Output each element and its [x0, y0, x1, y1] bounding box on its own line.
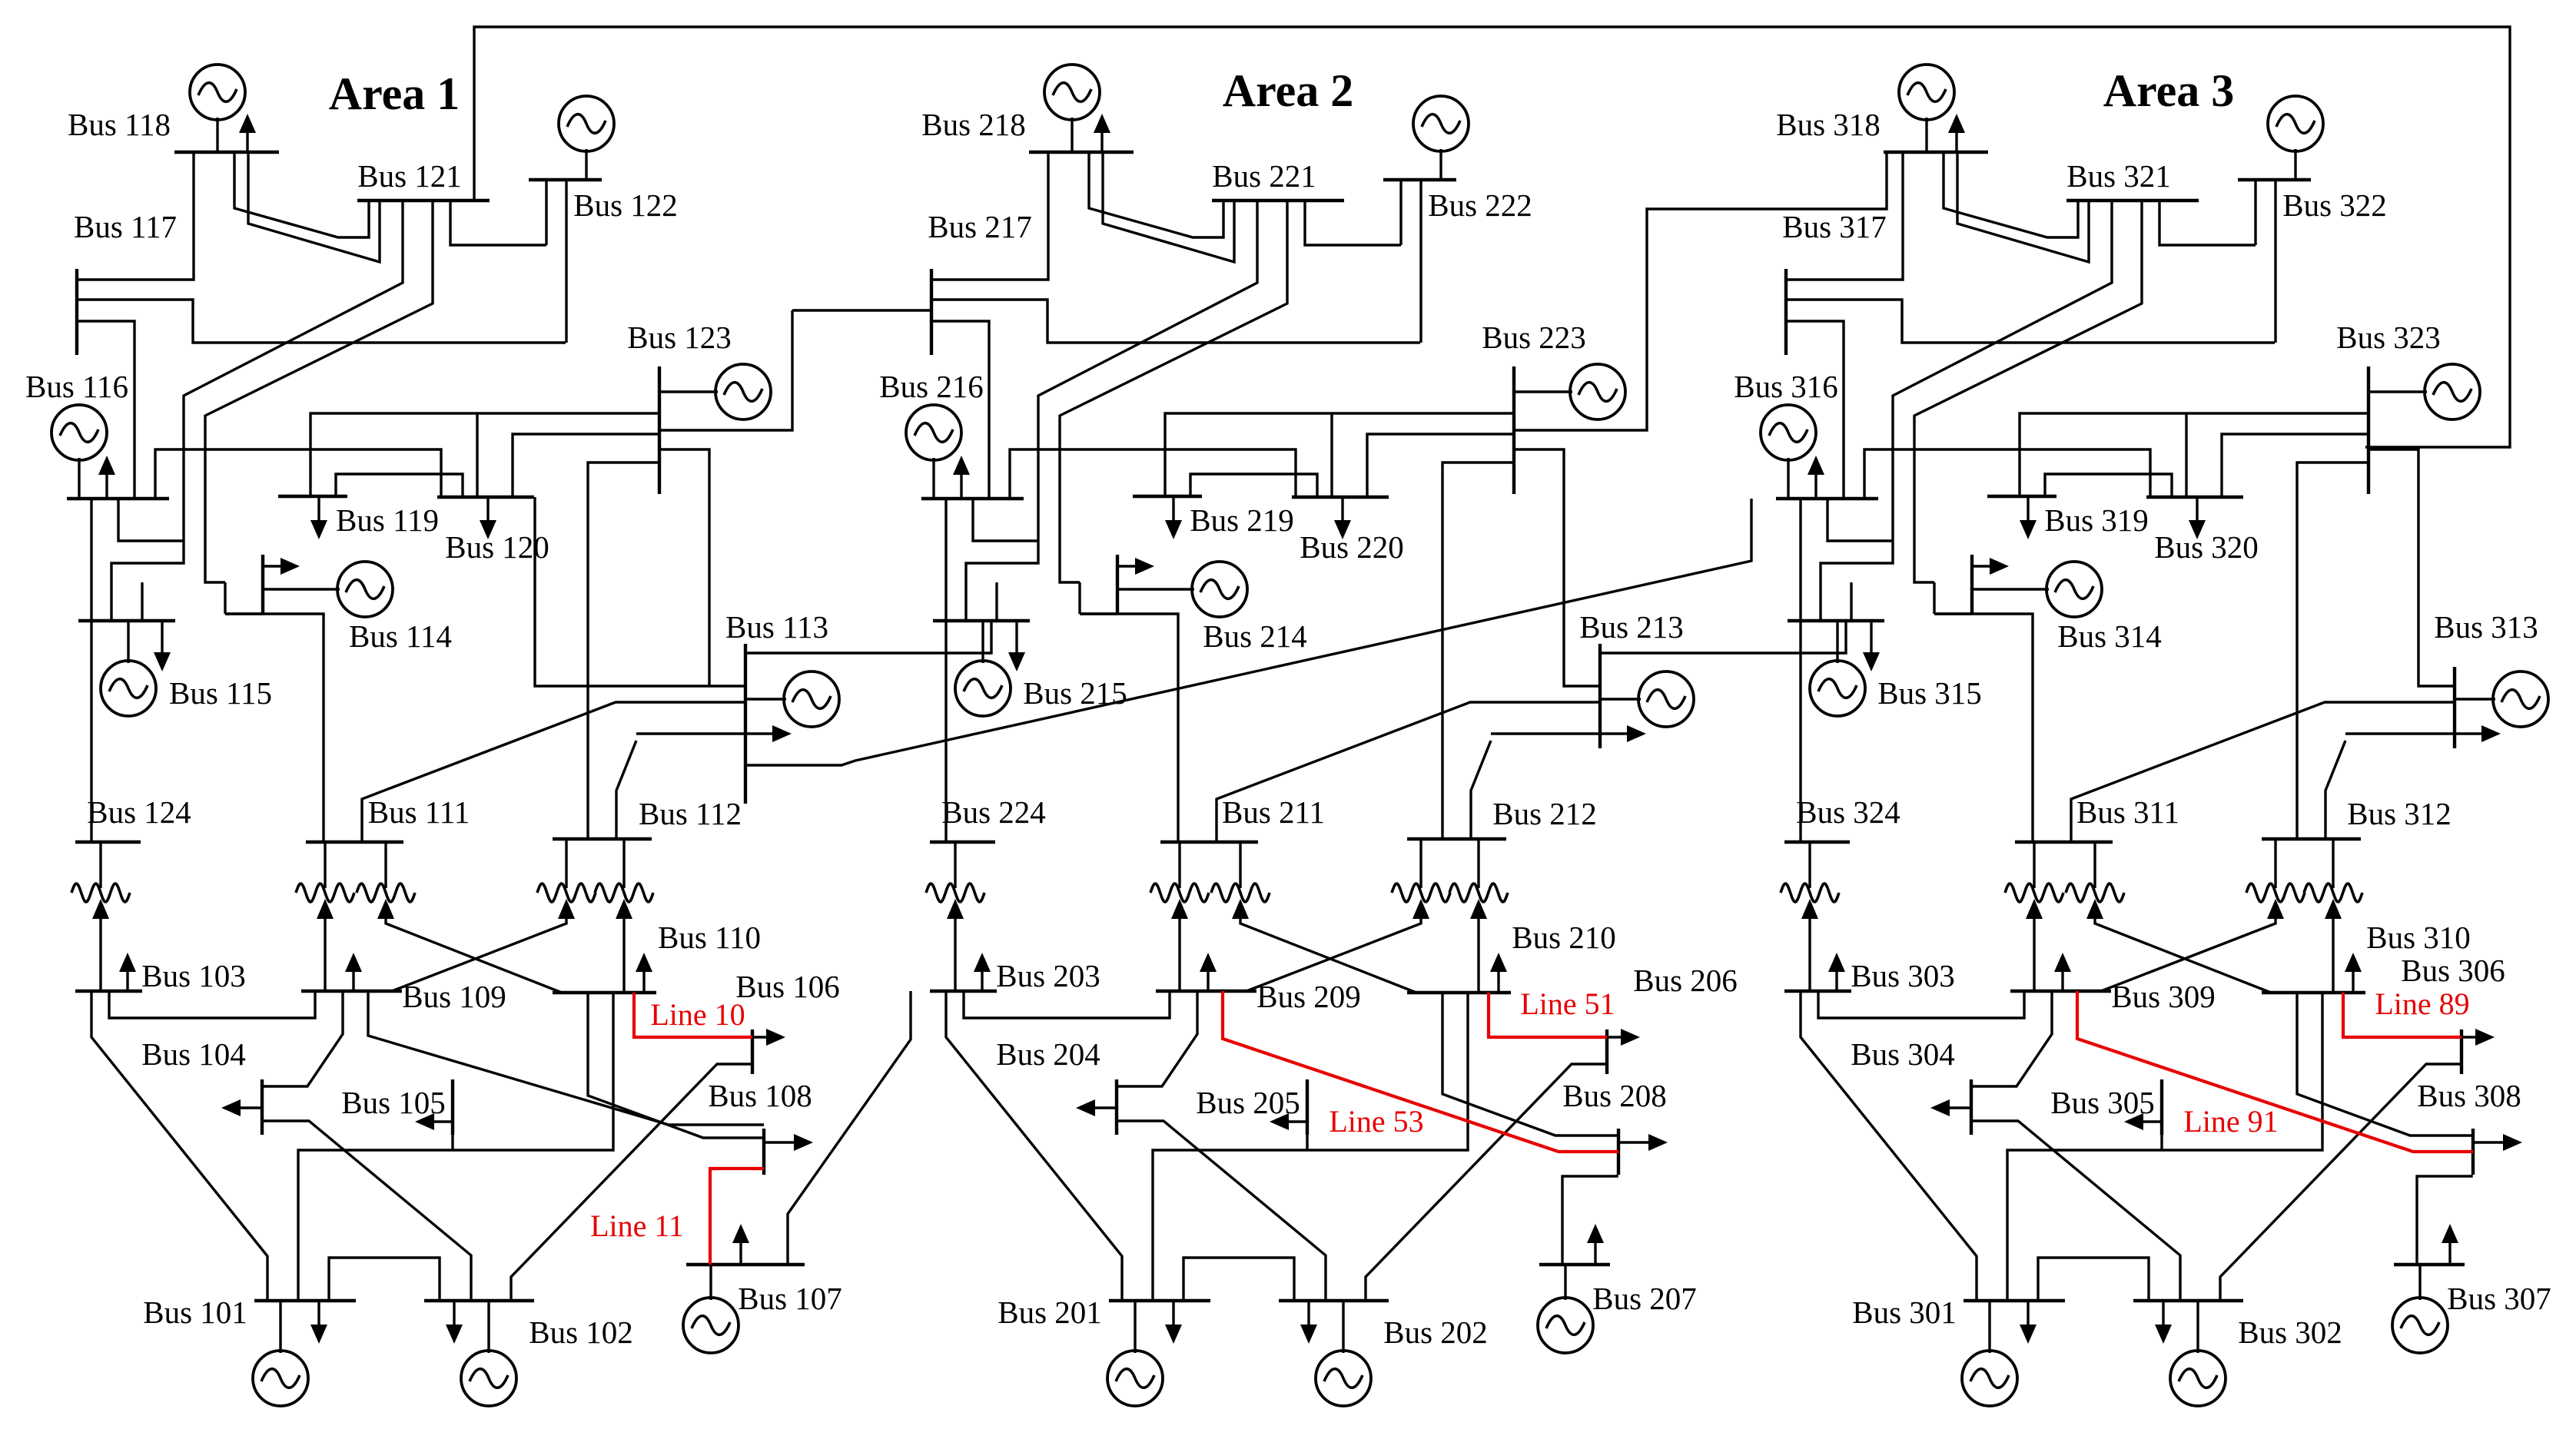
- svg-text:Bus 110: Bus 110: [658, 920, 761, 955]
- load arrow at bus 301: [2020, 1301, 2037, 1344]
- load arrow at bus 114: [263, 558, 300, 575]
- bus 209 bar: [1156, 990, 1256, 993]
- wire 204-202: [1117, 1121, 1326, 1301]
- wire tie line bus 107 to bus 203: [788, 991, 911, 1265]
- wire 301-302 bridge: [2038, 1258, 2149, 1301]
- bus 313 bar: [2453, 667, 2456, 748]
- generator at bus 114: [263, 562, 393, 617]
- bus 101 bar: [254, 1299, 356, 1302]
- wire 210-208: [1442, 993, 1618, 1136]
- wire 121-115 circuit 1: [111, 201, 403, 621]
- svg-text:Bus 304: Bus 304: [1851, 1036, 1955, 1072]
- wire 117-122: [77, 300, 566, 343]
- red line Line 51 (210-206): [1489, 993, 1607, 1037]
- load arrow at bus 206: [1607, 1029, 1640, 1046]
- load arrow at bus 215: [1008, 621, 1025, 671]
- wire 204-209: [1117, 991, 1197, 1086]
- svg-text:Bus 105: Bus 105: [341, 1085, 446, 1120]
- bus 106 bar: [751, 1029, 754, 1074]
- svg-text:Bus 324: Bus 324: [1796, 794, 1900, 830]
- load arrow at bus 201: [1165, 1301, 1182, 1344]
- svg-text:Bus 321: Bus 321: [2066, 158, 2171, 194]
- load arrow at bus 205: [1270, 1113, 1307, 1130]
- wire 321-315 circuit 2: [1914, 201, 2142, 582]
- svg-text:Bus 206: Bus 206: [1633, 963, 1738, 998]
- generator at bus 123: [659, 364, 771, 419]
- bus 202 bar: [1279, 1299, 1389, 1302]
- generator at bus 201: [1107, 1301, 1163, 1406]
- bus 124 bar: [75, 840, 141, 844]
- svg-text:Line 10: Line 10: [650, 997, 745, 1032]
- transformer 212-210: [1449, 839, 1508, 993]
- svg-text:Bus 216: Bus 216: [879, 369, 984, 404]
- bus 214 bar: [1116, 555, 1119, 614]
- load arrow at bus 310: [2345, 953, 2362, 993]
- svg-text:Bus 317: Bus 317: [1782, 209, 1887, 244]
- svg-text:Bus 119: Bus 119: [336, 502, 439, 538]
- bus 218 bar: [1029, 151, 1134, 154]
- svg-text:Bus 320: Bus 320: [2154, 529, 2259, 565]
- wire 304-309: [1971, 991, 2052, 1086]
- load arrow at bus 218: [1094, 114, 1110, 152]
- load arrow at bus 109: [345, 953, 362, 991]
- wire 123 tie column: [659, 310, 792, 430]
- transformer 111-110: [357, 842, 562, 993]
- bus 308 bar: [2471, 1129, 2475, 1175]
- bus 111 bar: [306, 840, 403, 844]
- generator at bus 301: [1962, 1301, 2017, 1406]
- svg-text:Bus 211: Bus 211: [1222, 794, 1325, 830]
- load arrow at bus 213: [1491, 725, 1646, 742]
- wire 212-213: [1471, 741, 1491, 839]
- svg-text:Bus 103: Bus 103: [141, 958, 246, 993]
- wire 303-309 under: [1818, 991, 2024, 1018]
- bus 323 bar: [2367, 366, 2370, 494]
- bus 112 bar: [553, 837, 652, 840]
- generator at bus 302: [2170, 1301, 2226, 1406]
- wire 221-215 circuit 2: [1060, 201, 1287, 582]
- svg-text:Bus 212: Bus 212: [1492, 796, 1597, 831]
- wire 303-301: [1801, 991, 1977, 1301]
- svg-text:Bus 314: Bus 314: [2057, 618, 2162, 654]
- bus 211 bar: [1160, 840, 1258, 844]
- bus 105 bar: [451, 1079, 454, 1135]
- svg-text:Bus 311: Bus 311: [2076, 794, 2179, 830]
- svg-text:Bus 122: Bus 122: [573, 187, 678, 223]
- wire 216 step: [973, 499, 1039, 541]
- load arrow at bus 115: [154, 621, 171, 671]
- wire 315 riser: [1850, 582, 1852, 621]
- generator at bus 115: [101, 621, 156, 716]
- svg-text:Bus 102: Bus 102: [529, 1315, 633, 1350]
- load arrow at bus 108: [764, 1134, 813, 1151]
- load arrow at bus 106: [752, 1029, 785, 1046]
- wire 111-113: [362, 702, 745, 842]
- bus 115 bar: [78, 619, 175, 622]
- bus 207 bar: [1539, 1263, 1610, 1266]
- svg-text:Bus 307: Bus 307: [2447, 1281, 2551, 1316]
- load arrow at bus 209: [1200, 953, 1217, 991]
- wire 119-123: [310, 413, 659, 496]
- wire 105 stub: [451, 1135, 453, 1150]
- load arrow at bus 315: [1863, 621, 1880, 671]
- bus 322 bar: [2238, 178, 2311, 181]
- svg-text:Bus 310: Bus 310: [2366, 920, 2471, 955]
- wire 102-106: [511, 1064, 752, 1301]
- load arrow at bus 303: [1828, 953, 1845, 991]
- wire 305 stub: [2160, 1135, 2163, 1150]
- wire 121-115 circuit 2: [205, 201, 433, 582]
- svg-text:Bus 221: Bus 221: [1212, 158, 1316, 194]
- svg-text:Bus 201: Bus 201: [998, 1295, 1102, 1330]
- wire 318-321 circuit 2: [1957, 152, 2089, 262]
- svg-text:Bus 218: Bus 218: [921, 107, 1026, 142]
- svg-text:Bus 220: Bus 220: [1300, 529, 1404, 565]
- svg-text:Area 2: Area 2: [1223, 65, 1354, 116]
- transformer 211-209: [1150, 842, 1209, 991]
- load arrow at bus 216: [953, 456, 970, 499]
- wire 202-206: [1366, 1064, 1607, 1301]
- bus 215 bar: [933, 619, 1030, 622]
- generator at bus 116: [51, 405, 107, 499]
- wire 317-322: [1786, 300, 2275, 343]
- wire 311-313: [2071, 702, 2455, 842]
- svg-text:Bus 121: Bus 121: [357, 158, 462, 194]
- wire 112-113: [616, 741, 636, 839]
- load arrow at bus 319: [2020, 496, 2037, 539]
- svg-text:Bus 208: Bus 208: [1562, 1078, 1667, 1113]
- load arrow at bus 314: [1972, 558, 2009, 575]
- wire 215 riser: [995, 582, 998, 621]
- wire 310-308: [2297, 993, 2473, 1136]
- wire 121-122: [450, 201, 546, 245]
- generator at bus 314: [1972, 562, 2102, 617]
- wire 103-109 under: [109, 991, 315, 1018]
- svg-text:Bus 323: Bus 323: [2336, 320, 2441, 355]
- wire 322 right leg: [2274, 180, 2276, 343]
- wire 122 left leg: [545, 180, 547, 245]
- load arrow at bus 208: [1618, 1134, 1668, 1151]
- wire 120 stub up: [476, 413, 478, 497]
- wire 105-101-110 long: [298, 993, 613, 1301]
- wire 117-116: [77, 321, 134, 499]
- wire tie line bus 113 to bus 316 (long diagonal): [745, 499, 1751, 765]
- svg-text:Bus 203: Bus 203: [996, 958, 1100, 993]
- svg-text:Bus 116: Bus 116: [25, 369, 128, 404]
- wire 115-124: [90, 621, 92, 842]
- load arrow at bus 207: [1587, 1224, 1604, 1265]
- load arrow at bus 320: [2189, 497, 2206, 539]
- wire 317-316: [1786, 321, 1844, 499]
- transformer 312-310: [2304, 839, 2362, 993]
- svg-text:Bus 316: Bus 316: [1734, 369, 1838, 404]
- bus 109 bar: [301, 990, 402, 993]
- load arrow at bus 302: [2155, 1301, 2172, 1344]
- bus 316 bar: [1776, 497, 1878, 500]
- bus 123 bar: [658, 366, 661, 494]
- generator at bus 218: [1044, 65, 1100, 152]
- svg-text:Bus 222: Bus 222: [1428, 187, 1532, 223]
- generator at bus 107: [683, 1265, 739, 1353]
- svg-text:Bus 312: Bus 312: [2347, 796, 2452, 831]
- wire 207-208: [1562, 1175, 1617, 1265]
- bus 204 bar: [1115, 1079, 1118, 1135]
- transformer 211-210: [1211, 842, 1416, 993]
- wire 211-213: [1217, 702, 1600, 842]
- bus 320 bar: [2146, 496, 2243, 499]
- load arrow at bus 316: [1808, 456, 1824, 499]
- generator at bus 113: [745, 671, 839, 727]
- wire tie line bus 121 to bus 323 (top long line): [474, 27, 2510, 447]
- load arrow at bus 120: [480, 497, 496, 539]
- load arrow at bus 118: [239, 114, 256, 152]
- load arrow at bus 305: [2124, 1113, 2162, 1130]
- wire 116 step: [118, 499, 184, 541]
- svg-text:Bus 113: Bus 113: [725, 609, 828, 645]
- wire 218-217: [931, 152, 1048, 280]
- transformer 312-309: [2101, 839, 2305, 991]
- wire 320-323: [2222, 434, 2369, 497]
- wire 214-211: [1080, 612, 1117, 615]
- svg-text:Bus 118: Bus 118: [68, 107, 171, 142]
- generator at bus 315: [1810, 621, 1865, 716]
- svg-text:Area 1: Area 1: [329, 68, 460, 119]
- svg-text:Bus 120: Bus 120: [445, 529, 549, 565]
- svg-text:Line 53: Line 53: [1329, 1104, 1423, 1139]
- bus 113 bar: [744, 644, 747, 804]
- wire 320 stub up: [2185, 413, 2187, 497]
- svg-text:Bus 213: Bus 213: [1579, 609, 1684, 645]
- bus 217 bar: [930, 269, 933, 355]
- generator at bus 101: [253, 1301, 308, 1406]
- wire 307-308: [2417, 1175, 2471, 1265]
- generator at bus 307: [2392, 1265, 2448, 1353]
- bus 315 bar: [1788, 619, 1884, 622]
- wire 218-221 circuit 2: [1103, 152, 1234, 262]
- red line Line 10 (110-106): [634, 993, 752, 1037]
- wire 216-220 over: [1010, 449, 1296, 499]
- bus 122 bar: [529, 178, 602, 181]
- load arrow at bus 104: [221, 1099, 262, 1116]
- bus 306 bar: [2460, 1029, 2463, 1074]
- load arrow at bus 210: [1490, 953, 1507, 993]
- transformer 324-303: [1781, 842, 1839, 991]
- wire 114-111 riser: [225, 614, 324, 842]
- wire 218-221 circuit 1: [1089, 152, 1223, 237]
- bus 223 bar: [1512, 366, 1515, 494]
- wire 222 left leg: [1399, 180, 1402, 245]
- wire 222 right leg: [1419, 180, 1422, 343]
- bus 203 bar: [930, 990, 997, 993]
- bus 311 bar: [2015, 840, 2113, 844]
- wire 116-120 over: [155, 449, 441, 499]
- wire 315-324: [1799, 621, 1801, 842]
- bus 201 bar: [1109, 1299, 1210, 1302]
- load arrow at bus 105: [415, 1113, 453, 1130]
- bus 301 bar: [1964, 1299, 2065, 1302]
- svg-text:Bus 302: Bus 302: [2238, 1315, 2342, 1350]
- bus 303 bar: [1784, 990, 1851, 993]
- bus 118 bar: [174, 151, 279, 154]
- svg-text:Bus 108: Bus 108: [708, 1078, 812, 1113]
- wire 302-306: [2220, 1064, 2461, 1301]
- wire tie line bus 223 to bus 318: [1647, 152, 1887, 310]
- red line Line 89 (310-306): [2343, 993, 2461, 1037]
- svg-text:Bus 305: Bus 305: [2050, 1085, 2155, 1120]
- svg-text:Line 11: Line 11: [590, 1209, 684, 1243]
- generator at bus 222: [1413, 96, 1469, 180]
- wire 314 leg: [1933, 582, 1935, 614]
- bus 220 bar: [1292, 496, 1389, 499]
- wire 316-320 over: [1864, 449, 2150, 499]
- wire 312-313: [2325, 741, 2345, 839]
- transformer 124-103: [71, 842, 130, 991]
- svg-text:Bus 308: Bus 308: [2417, 1078, 2521, 1113]
- wire 115 riser: [141, 582, 143, 621]
- load arrow at bus 307: [2442, 1224, 2458, 1265]
- bus 206 bar: [1605, 1029, 1608, 1074]
- wire 116-115: [90, 499, 92, 621]
- transformer 112-110: [595, 839, 653, 993]
- svg-text:Bus 309: Bus 309: [2111, 979, 2216, 1014]
- wire 118-121 circuit 1: [234, 152, 369, 237]
- bus 314 bar: [1970, 555, 1973, 614]
- load arrow at bus 306: [2461, 1029, 2495, 1046]
- generator at bus 213: [1600, 671, 1694, 727]
- wire 201-202 bridge: [1183, 1258, 1294, 1301]
- wire 321-322: [2159, 201, 2256, 245]
- wire 114-111: [225, 612, 263, 615]
- wire 214 leg: [1078, 582, 1081, 614]
- bus 318 bar: [1884, 151, 1988, 154]
- svg-text:Bus 210: Bus 210: [1512, 920, 1616, 955]
- svg-text:Bus 107: Bus 107: [738, 1281, 842, 1316]
- red line Line 53 (209-208): [1223, 991, 1618, 1152]
- generator at bus 322: [2268, 96, 2323, 180]
- transformer 212-209: [1247, 839, 1450, 991]
- wire 223 tie column: [1514, 310, 1647, 430]
- load arrow at bus 119: [310, 496, 327, 539]
- svg-text:Line 91: Line 91: [2183, 1104, 2278, 1139]
- load arrow at bus 107: [732, 1224, 749, 1265]
- bus 324 bar: [1784, 840, 1850, 844]
- wire 123-112: [588, 463, 659, 839]
- load arrow at bus 103: [119, 953, 136, 991]
- bus 213 bar: [1598, 644, 1602, 748]
- bus 102 bar: [424, 1299, 534, 1302]
- wire 221-222: [1305, 201, 1401, 245]
- load arrow at bus 102: [446, 1301, 463, 1344]
- load arrow at bus 318: [1948, 114, 1965, 152]
- svg-text:Bus 313: Bus 313: [2434, 609, 2538, 645]
- bus 302 bar: [2133, 1299, 2243, 1302]
- wire 217-216: [931, 321, 989, 499]
- red line Line 11 (108-107): [710, 1169, 764, 1265]
- wire 216-215: [944, 499, 947, 621]
- load arrow at bus 101: [310, 1301, 327, 1344]
- svg-text:Bus 124: Bus 124: [87, 794, 191, 830]
- load arrow at bus 202: [1300, 1301, 1317, 1344]
- svg-text:Bus 223: Bus 223: [1482, 320, 1586, 355]
- wire 319-323: [2020, 413, 2369, 496]
- svg-text:Bus 202: Bus 202: [1383, 1315, 1488, 1350]
- svg-text:Bus 209: Bus 209: [1256, 979, 1361, 1014]
- wire 323-313: [2369, 449, 2455, 686]
- wire 203-209 under: [964, 991, 1170, 1018]
- wire 223-213: [1514, 449, 1600, 686]
- svg-text:Bus 204: Bus 204: [996, 1036, 1100, 1072]
- wire 120-123: [513, 434, 659, 497]
- wire 322 left leg: [2254, 180, 2256, 245]
- generator at bus 313: [2455, 671, 2548, 727]
- generator at bus 122: [559, 96, 614, 180]
- wire 118-121 circuit 2: [248, 152, 380, 262]
- wire tie line bus 113 to bus 215: [745, 621, 991, 653]
- wire 122 right leg: [565, 180, 567, 343]
- wire 118-117: [77, 152, 194, 280]
- generator at bus 118: [190, 65, 245, 152]
- wire tie line bus 123 to bus 217: [792, 309, 931, 311]
- svg-text:Bus 214: Bus 214: [1203, 618, 1307, 654]
- load arrow at bus 313: [2345, 725, 2501, 742]
- wire 304-302: [1971, 1121, 2180, 1301]
- svg-text:Bus 318: Bus 318: [1776, 107, 1881, 142]
- svg-text:Bus 319: Bus 319: [2044, 502, 2149, 538]
- svg-text:Bus 109: Bus 109: [402, 979, 506, 1014]
- wire 217-222: [931, 300, 1420, 343]
- bus 216 bar: [921, 497, 1024, 500]
- wire 114 leg: [224, 582, 226, 614]
- wire 215-224: [944, 621, 947, 842]
- bus 104 bar: [261, 1079, 264, 1135]
- svg-text:Bus 101: Bus 101: [143, 1295, 247, 1330]
- load arrow at bus 203: [974, 953, 991, 991]
- bus 117 bar: [75, 269, 78, 355]
- wire 220-223: [1367, 434, 1514, 497]
- bus 219 bar: [1133, 495, 1202, 498]
- wire 104-109: [262, 991, 343, 1086]
- transformer 224-203: [926, 842, 984, 991]
- bus 103 bar: [75, 990, 142, 993]
- wire 214-211 riser: [1080, 614, 1178, 842]
- load arrow at bus 219: [1165, 496, 1182, 539]
- generator at bus 214: [1117, 562, 1247, 617]
- wire 316-315: [1799, 499, 1801, 621]
- bus 121 bar: [357, 199, 490, 202]
- transformer 111-109: [296, 842, 354, 991]
- svg-text:Bus 322: Bus 322: [2282, 187, 2387, 223]
- svg-text:Line 51: Line 51: [1520, 986, 1615, 1021]
- bus 210 bar: [1407, 991, 1511, 994]
- load arrow at bus 309: [2054, 953, 2071, 991]
- svg-text:Bus 106: Bus 106: [735, 969, 840, 1004]
- wire 314-311: [1934, 612, 1972, 615]
- generator at bus 318: [1899, 65, 1954, 152]
- wire 205 stub: [1306, 1135, 1308, 1150]
- svg-text:Bus 303: Bus 303: [1851, 958, 1955, 993]
- svg-text:Bus 315: Bus 315: [1877, 675, 1982, 711]
- bus 321 bar: [2066, 199, 2199, 202]
- svg-text:Bus 306: Bus 306: [2401, 953, 2505, 988]
- wire 120-113: [535, 497, 745, 686]
- svg-text:Bus 104: Bus 104: [141, 1036, 246, 1072]
- wire 205-201-210 long: [1153, 993, 1468, 1301]
- bus 208 bar: [1617, 1129, 1620, 1175]
- red line Line 91 (309-308): [2077, 991, 2473, 1152]
- svg-text:Bus 301: Bus 301: [1852, 1295, 1957, 1330]
- wire 221-215 circuit 1: [966, 201, 1257, 621]
- load arrow at bus 308: [2473, 1134, 2522, 1151]
